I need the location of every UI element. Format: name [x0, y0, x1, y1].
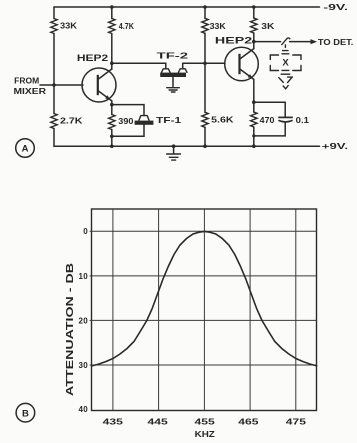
- chart response curve: [92, 231, 318, 366]
- wire 3K branch upper lead: [253, 7, 255, 18]
- wire TF-1 bottom lead: [112, 125, 144, 137]
- svg-text:HEP2: HEP2: [77, 53, 108, 63]
- svg-text:0.1: 0.1: [296, 115, 309, 125]
- svg-text:ATTENUATION - DB: ATTENUATION - DB: [64, 262, 76, 396]
- svg-text:TF-2: TF-2: [157, 51, 189, 61]
- wire Q2 collector vertical: [253, 33, 255, 49]
- resistor 390 (Q1 emitter): [109, 115, 134, 130]
- svg-text:33K: 33K: [210, 21, 227, 31]
- transfilter TF-1 (emitter ceramic filter): [135, 116, 182, 125]
- transistor Q1 HEP2 (first IF amplifier): [77, 53, 116, 102]
- wire output to detector: [254, 41, 311, 43]
- wire bypass capacitor top lead: [254, 102, 285, 117]
- svg-text:465: 465: [238, 417, 259, 426]
- resistor 4.7K (Q1 collector load): [109, 19, 135, 34]
- junction TF-1 bottom node: [110, 135, 114, 139]
- svg-text:455: 455: [195, 417, 216, 426]
- wire divider branch middle: [204, 33, 206, 112]
- chart B: plot border frame: [92, 209, 317, 411]
- svg-text:0: 0: [83, 227, 88, 236]
- transfilter TF-2 (interstage ceramic filter): [157, 51, 189, 87]
- svg-text:MIXER: MIXER: [14, 87, 47, 96]
- chart y-axis labels attenuation dB: [79, 227, 89, 414]
- junction cap return node: [252, 134, 255, 137]
- svg-text:390: 390: [118, 116, 133, 126]
- wire left branch middle segment: [53, 34, 55, 114]
- resistor 5.6K (second stage base bias lower): [202, 112, 234, 127]
- svg-text:33K: 33K: [60, 21, 78, 31]
- svg-text:TF-1: TF-1: [156, 116, 182, 125]
- junction Q2 base bias node: [203, 62, 207, 66]
- svg-text:X: X: [282, 58, 289, 69]
- junction Q2 emitter bypass node: [252, 100, 256, 104]
- ground bottom rail: [167, 146, 181, 160]
- svg-text:4.7K: 4.7K: [119, 21, 135, 31]
- junction Q1 emitter / TF-1 top node: [110, 103, 114, 107]
- chart x-axis labels kHz: [103, 417, 307, 426]
- wire bottom supply rail (+9V bus): [54, 145, 320, 147]
- svg-text:HEP2: HEP2: [215, 36, 252, 46]
- resistor 2.7K (first stage base bias lower): [51, 114, 84, 129]
- node circled label B: [16, 403, 35, 422]
- wire input from mixer to Q1 base: [40, 84, 83, 86]
- ground TF-2: [167, 88, 180, 92]
- wire bypass capacitor bottom lead: [254, 122, 285, 135]
- svg-text:+9V.: +9V.: [322, 142, 348, 151]
- wire left bias branch upper segment: [53, 7, 55, 19]
- node FROM MIXER input label: [14, 76, 47, 96]
- svg-text:20: 20: [79, 316, 89, 325]
- transistor Q2 HEP2 (second IF amplifier): [215, 36, 258, 81]
- chart horizontal gridlines 0-30 dB: [90, 231, 317, 365]
- capacitor coupling break symbol on output wire: [282, 38, 290, 45]
- wire top supply rail (-9V bus): [54, 6, 320, 8]
- svg-text:470: 470: [260, 115, 275, 125]
- svg-text:5.6K: 5.6K: [211, 115, 233, 125]
- chart vertical gridlines 435-475 kHz: [113, 209, 296, 411]
- svg-text:445: 445: [148, 417, 169, 426]
- svg-text:B: B: [22, 408, 29, 419]
- wire TF-1 top lead: [112, 105, 144, 116]
- svg-text:KHZ: KHZ: [195, 429, 215, 439]
- wire left branch lower segment: [53, 129, 55, 147]
- svg-text:-9V.: -9V.: [323, 3, 348, 12]
- svg-text:475: 475: [286, 417, 307, 426]
- svg-text:FROM: FROM: [14, 76, 39, 85]
- wire Q1 collector to TF-2 input: [112, 63, 166, 69]
- junction divider branch at top rail: [203, 5, 207, 9]
- svg-text:10: 10: [79, 272, 89, 281]
- wire divider branch lower lead: [204, 127, 206, 146]
- node circled label A: [16, 139, 35, 158]
- svg-text:A: A: [22, 144, 29, 155]
- svg-text:3K: 3K: [261, 21, 275, 31]
- wire Q1 collector vertical: [111, 34, 113, 70]
- wire Q2 emitter vertical lower: [253, 127, 255, 146]
- resistor 33K (first stage base bias upper): [51, 19, 78, 34]
- junction emitter branch at bottom rail: [252, 144, 256, 148]
- wire divider branch upper lead: [204, 7, 206, 18]
- svg-text:2.7K: 2.7K: [60, 116, 83, 126]
- junction Q2 collector output node: [252, 40, 256, 44]
- wire TF-2 output to Q2 base: [183, 63, 225, 69]
- node TO DET. output arrow: [311, 38, 354, 47]
- wire Q1 emitter vertical upper: [111, 101, 113, 115]
- junction 3K branch at top rail: [252, 5, 256, 9]
- svg-text:30: 30: [79, 361, 89, 370]
- wire Q2 emitter vertical upper: [253, 79, 255, 112]
- crystal X (optional, shown dashed): [270, 45, 301, 89]
- junction Q1 collector node: [110, 62, 114, 66]
- junction divider branch at bottom rail: [203, 144, 207, 148]
- wire Q1 emitter vertical lower: [111, 130, 113, 147]
- resistor 3K (Q2 collector load): [251, 18, 276, 33]
- junction ground at bottom rail: [172, 144, 176, 148]
- svg-text:435: 435: [103, 417, 124, 426]
- junction Q1 collector branch at top rail: [110, 5, 114, 9]
- svg-text:TO DET.: TO DET.: [318, 38, 354, 47]
- resistor 33K (second stage base bias upper): [202, 18, 227, 33]
- junction input/bias divider: [52, 83, 56, 87]
- capacitor 0.1 (emitter bypass): [278, 115, 309, 125]
- junction Q1 emitter branch at bottom rail: [110, 144, 114, 148]
- wire 4.7K branch upper lead: [111, 7, 113, 19]
- svg-text:40: 40: [79, 405, 89, 414]
- resistor 470 (Q2 emitter): [251, 112, 275, 127]
